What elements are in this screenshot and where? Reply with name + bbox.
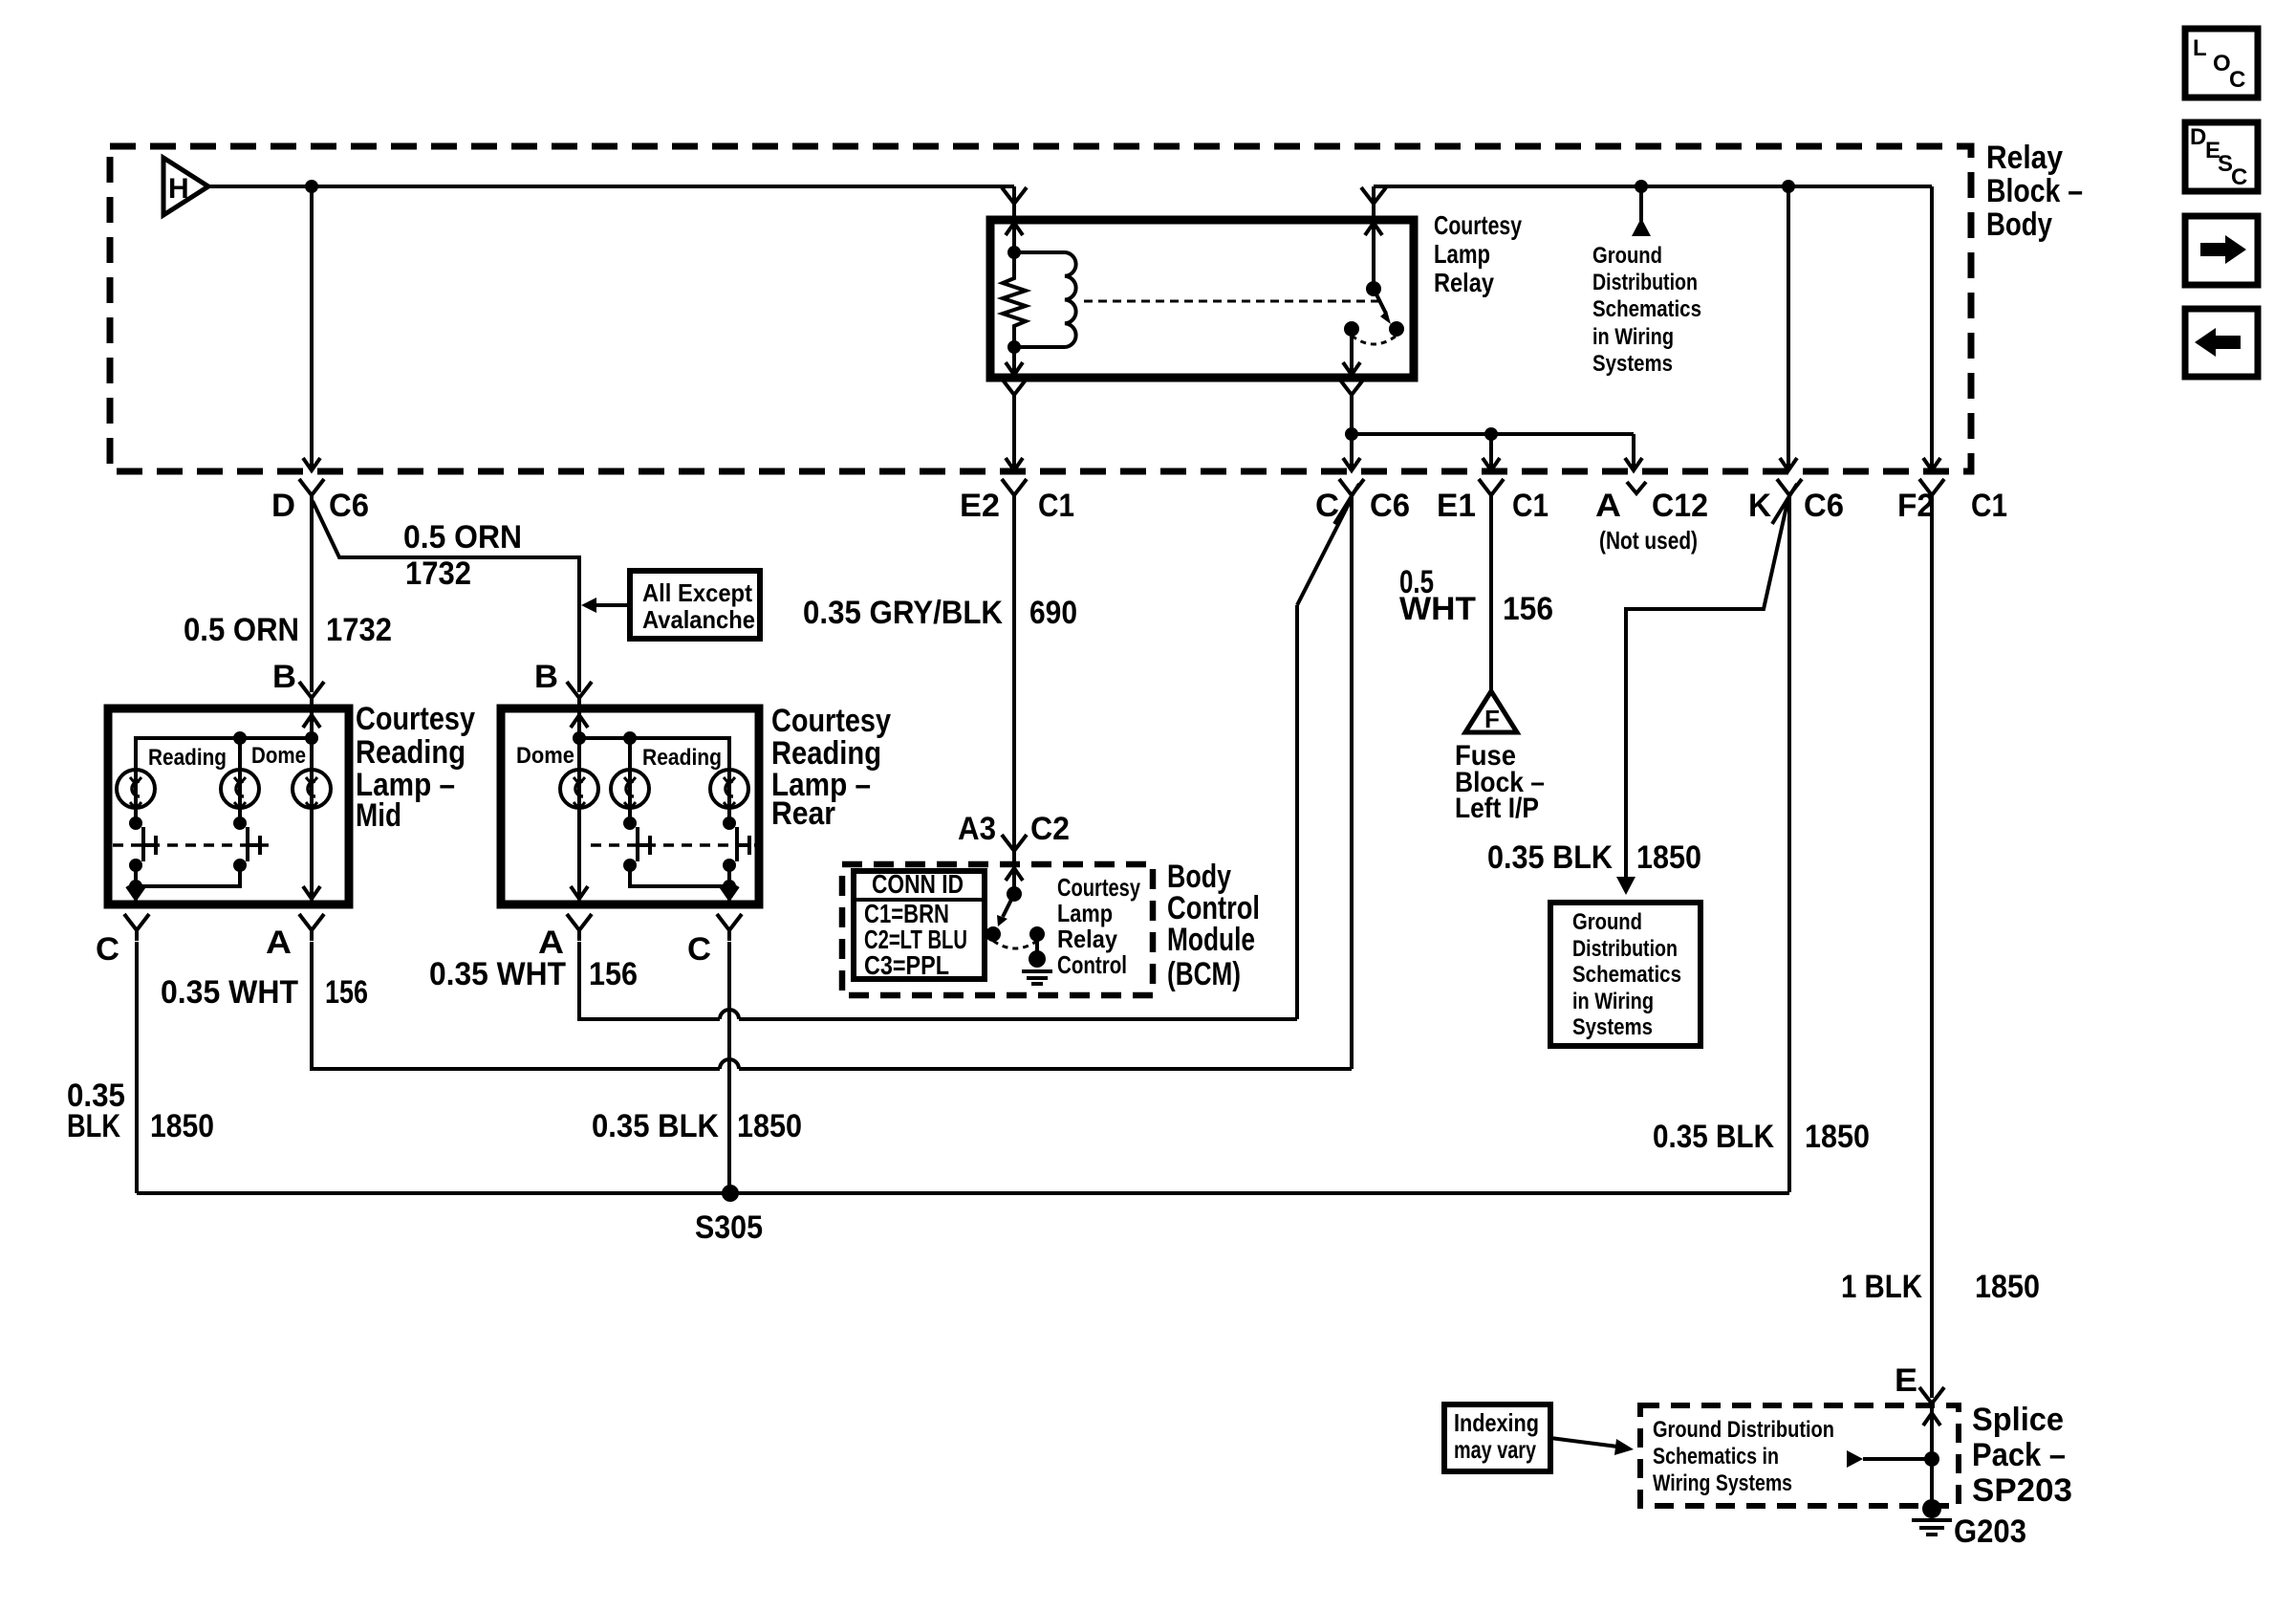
svg-text:WHT: WHT [1399, 591, 1476, 627]
Rear lamp switch linkage dashed [591, 843, 755, 847]
svg-text:Courtesy: Courtesy [771, 703, 891, 739]
Rear lamp ground-side wires [630, 865, 729, 886]
door switch (Rear reading) [636, 827, 639, 861]
Mid lamp box outline [108, 708, 349, 904]
svg-text:Relay: Relay [1986, 140, 2063, 176]
svg-text:0.35 BLK: 0.35 BLK [1653, 1119, 1774, 1155]
relay internal up arrow (coil col) [1006, 223, 1023, 235]
svg-text:Avalanche: Avalanche [642, 605, 755, 634]
svg-text:C: C [2231, 164, 2247, 190]
svg-text:E2: E2 [960, 488, 1000, 524]
connector F2-C1 [1919, 479, 1944, 506]
wire top bus left (H to relay E2 pin) [208, 185, 1014, 188]
svg-text:E1: E1 [1437, 488, 1476, 524]
relay switch dashed arc [1352, 336, 1397, 344]
BCM driver pivot node [1007, 886, 1022, 902]
fuse block triangle F [1465, 691, 1517, 732]
ground ref triangle (down) [1616, 877, 1635, 895]
relay switch NC contact node [1344, 321, 1359, 337]
svg-text:Dome: Dome [516, 743, 574, 769]
connector D-C6 [299, 479, 324, 506]
LOC nav box [2185, 29, 2258, 98]
svg-text:Schematics in: Schematics in [1653, 1444, 1779, 1469]
ground reference stub and triangle (top) [1639, 186, 1643, 221]
Mid lamp main wire B to A [310, 708, 314, 904]
connector B (Mid lamp) [299, 682, 324, 708]
Mid lamp ground-side wires [134, 865, 138, 904]
wire F2 to splice pack E [1930, 506, 1934, 1398]
connector E (splice pack) [1919, 1387, 1944, 1414]
relay internal down arrow (coil col) [1006, 362, 1023, 375]
Mid lamp up arrow [303, 715, 320, 728]
door switch (Mid dome) [246, 827, 249, 861]
relay pin connector below box (E2) [1002, 379, 1027, 405]
svg-text:C1: C1 [1971, 488, 2007, 524]
door switch (Rear right) [735, 827, 739, 861]
svg-text:C1: C1 [1512, 488, 1549, 524]
Ground Distribution reference box (right) [1550, 903, 1700, 1046]
Rear lamp node (reading branch) [623, 731, 637, 745]
svg-text:0.5 ORN: 0.5 ORN [403, 519, 522, 555]
connector A3-C2 (BCM) [1002, 835, 1027, 861]
svg-text:F: F [1484, 705, 1500, 733]
bulb Mid reading lamp [117, 770, 155, 808]
svg-text:A: A [1595, 488, 1621, 524]
Rear lamp up arrow [571, 715, 588, 728]
CONN ID table box [854, 871, 985, 979]
svg-text:Distribution: Distribution [1592, 270, 1698, 295]
junction node C branch [1345, 427, 1358, 441]
svg-text:C12: C12 [1652, 488, 1708, 524]
BCM driver lever [1003, 894, 1014, 917]
splice S305 [722, 1185, 739, 1202]
wire Rear C ground drop [727, 942, 731, 1193]
wire E1 to fuse block (156) [1489, 506, 1493, 691]
wire F2 column to dashed edge [1930, 186, 1934, 469]
DESC nav box [2185, 122, 2258, 191]
wire D column (bus to B, Mid lamp) [310, 186, 314, 469]
splice internal node [1924, 1451, 1939, 1467]
BCM internal ground symbol [1035, 934, 1039, 951]
Indexing may vary box [1444, 1404, 1550, 1471]
relay internal wire coil column [1012, 220, 1016, 252]
svg-text:C: C [1315, 488, 1339, 524]
svg-text:in Wiring: in Wiring [1572, 989, 1654, 1014]
relay coil pin E2 connector (top) [1002, 187, 1027, 214]
relay coil top node [1007, 246, 1021, 259]
svg-text:C: C [96, 931, 119, 968]
svg-text:Relay: Relay [1434, 268, 1495, 297]
svg-text:1850: 1850 [737, 1108, 802, 1144]
svg-text:Schematics: Schematics [1572, 962, 1681, 988]
junction node top bus / K column [1782, 180, 1795, 193]
Rear lamp down arrow (A) [571, 886, 588, 899]
svg-text:BLK: BLK [67, 1108, 120, 1144]
BCM ground contact node [1029, 926, 1045, 942]
Mid lamp node (main) [305, 731, 318, 745]
relay switch NO contact node [1389, 321, 1404, 337]
svg-text:0.35 BLK: 0.35 BLK [592, 1108, 719, 1144]
svg-text:(BCM): (BCM) [1167, 956, 1241, 992]
BCM dashed outline [842, 864, 1153, 995]
svg-text:Body: Body [1986, 207, 2052, 243]
svg-text:Module: Module [1167, 922, 1255, 958]
wire Mid C ground drop [135, 942, 139, 1193]
hot feed triangle H [163, 158, 208, 215]
relay switch wire (common) [1372, 220, 1375, 289]
svg-text:Systems: Systems [1572, 1014, 1653, 1040]
connector B (Rear lamp) [567, 682, 592, 708]
relay switch pin connector (top) [1361, 187, 1386, 214]
svg-text:Lamp: Lamp [1057, 899, 1113, 927]
wire K to ground ref [1626, 502, 1787, 879]
svg-text:Block –: Block – [1986, 173, 2083, 209]
Rear reading bulb lower node [628, 808, 632, 823]
svg-text:Indexing: Indexing [1454, 1408, 1539, 1437]
connector A (Rear lamp) [567, 914, 592, 941]
wire E1 drop [1489, 434, 1493, 469]
Mid dome bulb lower node [238, 808, 242, 823]
svg-text:Mid: Mid [356, 797, 401, 834]
svg-text:Left I/P: Left I/P [1455, 793, 1539, 824]
svg-text:Dome: Dome [251, 743, 306, 769]
connector E1-C1 [1479, 479, 1504, 506]
Mid lamp switch linkage dashed [113, 843, 270, 847]
Mid lamp junction node [129, 880, 142, 893]
junction node top bus / D column [305, 180, 318, 193]
svg-text:0.35 BLK: 0.35 BLK [1487, 839, 1613, 876]
Splice Pack dashed outline [1640, 1405, 1959, 1506]
connector E2-C1 [1002, 479, 1027, 506]
Mid dome switch lower node [233, 859, 247, 872]
svg-text:Distribution: Distribution [1572, 936, 1678, 962]
svg-text:C6: C6 [329, 488, 369, 524]
svg-text:Ground: Ground [1572, 909, 1642, 935]
Mid lamp down arrow (A) [303, 886, 320, 899]
wire C column to dashed edge [1350, 400, 1354, 432]
svg-text:0.35 WHT: 0.35 WHT [161, 974, 298, 1011]
svg-text:CONN ID: CONN ID [872, 869, 964, 899]
svg-text:G203: G203 [1954, 1513, 2026, 1550]
splice internal wire [1930, 1405, 1934, 1509]
svg-text:Ground: Ground [1592, 243, 1662, 269]
svg-text:C6: C6 [1804, 488, 1844, 524]
Rear lamp node (main) [573, 731, 586, 745]
ground bus wire S305 [137, 1191, 1789, 1195]
Rear reading switch lower node [623, 859, 637, 872]
connector C (Rear lamp) [717, 914, 742, 941]
svg-text:K: K [1748, 488, 1771, 524]
BCM input up arrow [1006, 868, 1023, 881]
inductor coil (relay winding) [1014, 250, 1065, 254]
svg-text:Systems: Systems [1592, 351, 1673, 377]
svg-text:1850: 1850 [1636, 839, 1701, 876]
connector C (Mid lamp) [124, 914, 149, 941]
relay internal down arrow (switch out) [1343, 362, 1360, 375]
Rear right bulb lower node [727, 808, 731, 823]
svg-text:C3=PPL: C3=PPL [864, 950, 949, 980]
svg-text:0.35 WHT: 0.35 WHT [429, 956, 566, 992]
connector C-C6 (double crimp) [1339, 479, 1364, 506]
svg-text:C: C [687, 931, 711, 968]
Mid lamp node (dome branch) [233, 731, 247, 745]
svg-text:C6: C6 [1370, 488, 1410, 524]
bulb Mid always-on lamp [292, 770, 331, 808]
svg-text:Courtesy: Courtesy [1434, 210, 1523, 240]
next page arrow box [2185, 216, 2258, 285]
wire K column to dashed edge [1787, 186, 1790, 469]
Rear right switch lower node [723, 859, 736, 872]
Rear lamp main wire B to A [577, 708, 581, 904]
wire top bus right (relay switch pin to F2 corner) [1372, 186, 1375, 220]
connector A-C12 (not used) [1627, 482, 1646, 493]
svg-text:S305: S305 [695, 1209, 763, 1246]
svg-text:156: 156 [325, 974, 368, 1011]
relay actuation dashed link [1084, 300, 1381, 303]
bulb Rear right lamp [710, 770, 748, 808]
svg-text:All Except: All Except [642, 578, 752, 607]
svg-text:D: D [2190, 124, 2206, 150]
junction node E1 branch [1484, 427, 1498, 441]
relay coil bottom node [1007, 340, 1021, 354]
connector A (Mid lamp) [299, 914, 324, 941]
svg-text:0.5 ORN: 0.5 ORN [184, 612, 299, 648]
svg-text:may vary: may vary [1454, 1435, 1536, 1464]
wire E2 column to dashed edge [1012, 400, 1016, 469]
svg-text:H: H [168, 173, 189, 205]
svg-text:Reading: Reading [148, 745, 227, 771]
svg-text:F2: F2 [1897, 488, 1935, 524]
ground G203 symbol [1922, 1499, 1941, 1518]
wire E2 to BCM A3 (690) [1012, 506, 1016, 864]
svg-text:Relay: Relay [1057, 925, 1117, 953]
relay box outline (Courtesy Lamp Relay) [990, 220, 1414, 378]
Mid reading bulb lower node [134, 808, 138, 823]
relay switch output wire [1350, 329, 1354, 378]
Mid lamp down arrow (C) [127, 886, 144, 899]
svg-text:C: C [2229, 67, 2245, 93]
svg-text:B: B [272, 659, 296, 695]
svg-text:B: B [534, 659, 558, 695]
svg-text:Schematics: Schematics [1592, 296, 1701, 322]
Rear lamp box outline [501, 708, 759, 904]
junction node top bus / ground ref [1635, 180, 1648, 193]
Rear lamp down arrow (C) [721, 886, 738, 899]
resistor (relay coil suppression) [1003, 252, 1026, 347]
Rear lamp inner top wire [579, 738, 729, 768]
svg-text:1850: 1850 [1975, 1269, 2040, 1305]
svg-text:L: L [2193, 35, 2207, 61]
indexing arrow [1550, 1438, 1617, 1447]
BCM driver contact node [986, 926, 1001, 942]
relay switch pivot node [1366, 281, 1381, 296]
relay switch lever [1374, 289, 1386, 314]
svg-text:1850: 1850 [1805, 1119, 1870, 1155]
Relay Block - Body dashed outline [110, 146, 1971, 471]
svg-text:O: O [2213, 51, 2231, 76]
Mid reading switch lower node [129, 859, 142, 872]
wire K to S305 bus [1787, 506, 1791, 1192]
BCM internal wire [1012, 864, 1016, 894]
svg-text:0.35 GRY/BLK: 0.35 GRY/BLK [803, 595, 1003, 631]
svg-text:156: 156 [1503, 591, 1553, 627]
svg-text:Courtesy: Courtesy [356, 701, 475, 737]
wire Rear A to switch C (156) [579, 942, 720, 1019]
relay internal up arrow (switch) [1365, 223, 1382, 235]
svg-text:1732: 1732 [326, 612, 392, 648]
bulb Rear dome lamp [560, 770, 598, 808]
svg-text:A3: A3 [958, 811, 996, 847]
BCM driver dashed arc [993, 941, 1037, 948]
connector K-C6 (double crimp) [1777, 479, 1802, 506]
svg-text:D: D [271, 488, 295, 524]
svg-text:Lamp: Lamp [1434, 239, 1490, 269]
svg-text:E: E [1895, 1362, 1917, 1399]
svg-text:C2: C2 [1030, 811, 1070, 847]
previous page arrow box [2185, 309, 2258, 377]
relay pin connector below box (C) [1339, 379, 1364, 405]
svg-text:Reading: Reading [356, 734, 466, 771]
svg-text:Reading: Reading [642, 745, 722, 771]
door switch (Mid reading) [141, 827, 145, 861]
Rear lamp junction node [723, 880, 736, 893]
svg-text:Control: Control [1057, 950, 1127, 979]
wire 0.5 ORN diagonal to Rear lamp [313, 501, 579, 692]
svg-text:Pack –: Pack – [1972, 1437, 2066, 1473]
svg-text:Rear: Rear [771, 795, 835, 832]
svg-text:156: 156 [589, 956, 638, 992]
splice branch arrow [1863, 1457, 1932, 1461]
svg-text:A: A [266, 925, 292, 961]
wire branch to E1 and A [1352, 432, 1634, 436]
svg-text:1 BLK: 1 BLK [1841, 1269, 1922, 1305]
svg-text:1850: 1850 [150, 1108, 214, 1144]
svg-text:690: 690 [1029, 595, 1077, 631]
svg-text:Ground Distribution: Ground Distribution [1653, 1417, 1834, 1443]
All Except Avalanche callout box [630, 571, 760, 639]
svg-text:SP203: SP203 [1972, 1472, 2072, 1509]
svg-text:C1: C1 [1038, 488, 1074, 524]
svg-text:Courtesy: Courtesy [1057, 873, 1140, 902]
Mid lamp inner top wire [136, 738, 312, 768]
svg-text:(Not used): (Not used) [1599, 526, 1698, 555]
svg-text:1732: 1732 [405, 555, 471, 592]
bulb Rear reading lamp [628, 738, 632, 768]
svg-text:Wiring Systems: Wiring Systems [1653, 1470, 1792, 1496]
svg-text:in Wiring: in Wiring [1592, 324, 1674, 350]
bulb Mid dome lamp [238, 738, 242, 768]
wire Mid A to switch C (156) [312, 942, 720, 1069]
svg-text:Splice: Splice [1972, 1402, 2064, 1438]
